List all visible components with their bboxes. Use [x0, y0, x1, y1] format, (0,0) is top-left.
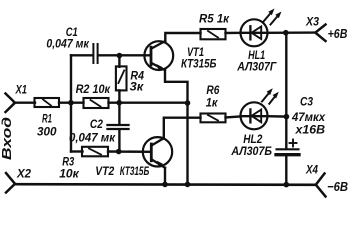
wire C2 top lead: [118, 103, 120, 124]
capacitor C2: [108, 125, 129, 129]
wire R3 to VT2 base: [108, 150, 151, 153]
svg-text:10к: 10к: [59, 166, 79, 180]
resistor R3: [82, 147, 108, 157]
wire R2 to emitter rail: [109, 101, 188, 103]
label R3 value 10к: [59, 157, 79, 181]
svg-text:х16В: х16В: [294, 124, 325, 137]
junction VT2 emitter on rail: [162, 182, 168, 188]
wire R4 bottom lead: [118, 90, 120, 103]
svg-text:X4: X4: [305, 164, 318, 177]
svg-text:0,047 мк: 0,047 мк: [69, 131, 116, 145]
resistor R6: [201, 114, 226, 123]
wire VT1 emitter to rail: [165, 70, 188, 185]
resistor R4: [116, 66, 127, 90]
wire HL2 to supply vertical: [267, 115, 286, 118]
svg-text:R2 10к: R2 10к: [76, 82, 111, 96]
wire VT2 collector to R6: [164, 118, 201, 139]
svg-text:АЛ307Б: АЛ307Б: [230, 145, 272, 158]
label R6 value 1к: [206, 85, 220, 110]
wire R4 top lead: [118, 56, 120, 67]
svg-text:47мкх: 47мкх: [291, 111, 325, 124]
svg-text:0,047 мк: 0,047 мк: [46, 37, 89, 51]
terminal X1: [6, 94, 16, 113]
resistor R2: [84, 98, 109, 108]
junction HL2 right: [284, 114, 290, 120]
wire VT1 collector to R5: [165, 33, 200, 41]
svg-text:R5 1к: R5 1к: [199, 13, 230, 26]
svg-text:−6В: −6В: [327, 179, 348, 194]
terminal X2: [6, 173, 15, 193]
transistor VT2: [143, 137, 172, 168]
resistor R5: [201, 29, 226, 39]
wire C3 to bottom rail: [285, 156, 287, 185]
svg-text:3к: 3к: [130, 79, 144, 93]
wire node A down to R3: [71, 150, 83, 152]
junction top right: [283, 30, 289, 36]
capacitor C3 polarized: [276, 140, 299, 155]
svg-text:Вход: Вход: [0, 117, 14, 160]
wire VT2 emitter down: [164, 168, 166, 185]
svg-text:КТ315Б: КТ315Б: [120, 165, 150, 178]
transistor VT1: [144, 41, 173, 71]
label HL2 АЛ307Б: [230, 132, 272, 158]
terminal X4: [316, 174, 326, 197]
svg-text:X1: X1: [15, 82, 28, 96]
label VT1 КТ315Б: [181, 45, 217, 71]
svg-text:300: 300: [37, 125, 57, 139]
svg-text:С3: С3: [300, 95, 313, 109]
junction emitter rail bottom: [185, 182, 191, 188]
junction C2 bottom / R3: [116, 149, 122, 155]
svg-text:X3: X3: [305, 16, 319, 29]
junction C3 bottom: [284, 182, 290, 188]
capacitor C1: [93, 44, 97, 63]
wire R1 to node A and R2: [59, 101, 84, 103]
label VT2 КТ315Б: [95, 164, 149, 178]
wire node A vertical branch: [70, 55, 72, 151]
wire C1 left lead: [71, 54, 93, 56]
label C3 value 47мкх16В: [291, 95, 325, 137]
resistor R1: [35, 98, 60, 107]
label C2 value 0,047мк: [69, 117, 116, 144]
svg-text:АЛ307Г: АЛ307Г: [236, 60, 277, 73]
svg-text:+6В: +6В: [328, 26, 348, 41]
LED HL2: [241, 88, 279, 129]
junction R4 top: [117, 53, 123, 59]
wire C1 to VT1 base: [99, 54, 151, 56]
terminal X3: [315, 25, 325, 42]
label HL1 АЛ307Г: [236, 48, 277, 73]
svg-text:КТ315Б: КТ315Б: [181, 58, 217, 71]
junction emitter/R2 rail: [185, 100, 191, 106]
wire bottom rail: [15, 183, 317, 186]
svg-text:1к: 1к: [206, 95, 218, 109]
label R1 value 300: [37, 113, 57, 138]
wire HL1 to X3: [267, 31, 315, 34]
label C1 value 0,047мк: [46, 25, 89, 51]
junction R2/R4/C2: [116, 100, 122, 106]
wire C2 bottom lead: [118, 130, 120, 152]
wire R6 to HL2: [226, 116, 242, 117]
node A junction: [68, 100, 74, 106]
wire X1 to R1: [14, 101, 35, 103]
svg-text:С2: С2: [90, 117, 103, 131]
svg-text:HL2: HL2: [243, 132, 262, 146]
wire R5 to HL1: [226, 32, 242, 35]
svg-text:X2: X2: [16, 166, 31, 180]
label R4 value 3к: [130, 70, 145, 93]
LED HL1: [241, 9, 282, 47]
wire supply vertical to C3: [285, 33, 287, 149]
svg-text:VT2: VT2: [95, 164, 114, 178]
